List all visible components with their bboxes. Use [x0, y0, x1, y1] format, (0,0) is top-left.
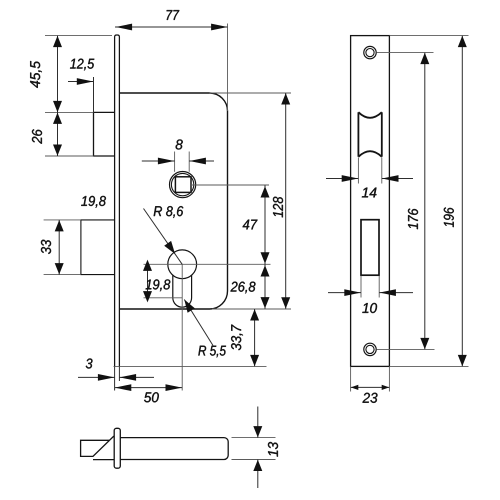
extension line: roller left for 14 — [357, 158, 359, 184]
dimension 47 label — [243, 220, 258, 230]
dimension 19,8 bottom arrow — [143, 291, 152, 302]
extension line: spindle dim 8 right — [188, 152, 190, 172]
dimension 14 left arrow line — [326, 178, 358, 180]
dimension 10 left arrow line — [328, 292, 361, 294]
dimension 196 label — [444, 207, 454, 227]
extension line: plate right below for 23 — [388, 366, 390, 391]
dimension 26,8 line — [264, 264, 266, 309]
extension line: keyway bottom for 19,8 — [144, 297, 183, 299]
extension line: deadbolt bottom left — [44, 274, 81, 276]
dimension 128 label — [273, 197, 283, 218]
spindle hole outer circle — [170, 172, 196, 198]
dimension 10 label — [362, 303, 377, 313]
euro cylinder keyway slot — [173, 275, 192, 307]
dimension 26 label — [32, 129, 42, 144]
extension line: deadbolt top left — [44, 219, 81, 221]
dimension 12,5 arrow line — [68, 81, 94, 83]
extension line: plate left below for 23 — [350, 366, 352, 391]
extension line: deadbolt cutout right for 10 — [378, 276, 380, 298]
dimension 196 top arrow — [458, 36, 467, 47]
dimension 14 right arrow line — [382, 178, 413, 180]
latch bolt (bottom view) with bevel — [81, 436, 115, 459]
extension line: latch bottom (left of latch) — [45, 155, 94, 157]
dimension 23 label — [363, 393, 378, 403]
faceplate end view bar (bottom view) — [114, 428, 120, 468]
dimension 176 bottom arrow — [420, 338, 429, 349]
dimension 3 left arrow — [98, 374, 115, 381]
dimension 45,5 top arrow — [53, 36, 62, 47]
extension line: latch tip vertical for 12,5 — [93, 77, 95, 112]
dimension 33,7 bottom arrow — [250, 355, 259, 366]
dimension 10 right arrow — [379, 289, 396, 296]
dimension 33 line — [58, 220, 60, 275]
dimension 26,8 top arrow — [261, 265, 270, 276]
dimension 23 left arrow — [351, 385, 359, 390]
dimension 13 bottom arrow line — [257, 460, 259, 489]
dimension 10 right arrow line — [379, 292, 413, 294]
extension line: latch top (left of latch) — [45, 111, 94, 113]
dimension 50 label — [144, 392, 159, 402]
dimension 176 top arrow — [420, 53, 429, 64]
dimension 26,8 label — [231, 282, 256, 294]
dimension 19,8 top arrow — [143, 260, 152, 271]
extension line: top screw centre to 176 dim — [376, 52, 433, 54]
dimension 33 bottom arrow — [55, 263, 64, 274]
dimension 128 bottom arrow — [281, 297, 290, 308]
extension line: deadbolt cutout left for 10 — [360, 276, 362, 298]
extension line: cylinder horizontal centre line — [144, 263, 271, 265]
extension line: bottom screw centre to 176 dim — [376, 348, 434, 350]
dimension 8 right arrow line — [189, 160, 214, 162]
dimension 8 label — [176, 139, 183, 149]
dimension 33 top arrow — [55, 220, 64, 231]
extension line: plate bottom to 196 dim — [389, 365, 468, 367]
dimension 26 line — [57, 112, 59, 156]
dimension 176 label — [408, 209, 418, 230]
dimension 8 left arrow line — [142, 160, 175, 162]
dimension 47 line — [264, 185, 266, 264]
radius leader R 5,5 line — [184, 300, 213, 346]
latch bolt block (side view) — [94, 112, 115, 156]
dimension 45,5 bottom arrow — [53, 101, 62, 112]
dimension 12,5 label — [70, 59, 94, 71]
extension line: cylinder vertical centre line to 50 dim — [181, 264, 183, 390]
dimension 8 left arrow — [158, 158, 175, 165]
dimension 50 left arrow — [115, 384, 132, 391]
dimension 50 line — [115, 387, 183, 389]
dimension 47 top arrow — [261, 186, 270, 197]
label R 5,5 — [198, 346, 226, 358]
dimension 23 line — [351, 386, 390, 388]
dimension 13 top arrow line — [257, 407, 259, 438]
extension line: case bottom to 128 dim — [212, 308, 291, 310]
dimension 196 line — [461, 36, 463, 367]
faceplate side view (vertical strip) — [115, 35, 120, 366]
spindle hole inner circle — [171, 173, 193, 195]
dimension 128 line — [285, 93, 287, 309]
dimension 26,8 bottom arrow — [261, 297, 270, 308]
extension line: faceplate right below (for 3) — [118, 366, 120, 381]
dimension 14 right arrow — [382, 175, 399, 182]
dimension 26 bottom arrow — [53, 145, 62, 156]
dimension 8 right arrow — [189, 158, 206, 165]
deadbolt cutout rectangle — [361, 220, 379, 276]
dimension 33,7 line — [254, 309, 256, 366]
dimension 12,5 arrow — [77, 78, 94, 85]
dimension 10 left arrow — [344, 289, 361, 296]
extension line: roller right for 14 — [381, 158, 383, 184]
dimension 23 right arrow — [382, 385, 390, 390]
dimension 33,7 top arrow — [250, 309, 259, 320]
extension line: faceplate left below (for 3 and 50) — [114, 366, 116, 390]
bottom screw hole outer — [364, 343, 376, 355]
dimension 3 right arrow — [120, 374, 137, 381]
extension line: case right edge up to 77 dim — [227, 24, 229, 112]
extension line: faceplate top left — [45, 35, 112, 37]
dimension 3 right arrow line — [119, 376, 154, 378]
dimension 45,5 label — [30, 61, 42, 88]
bottom screw hole inner — [366, 345, 374, 353]
dimension 176 line — [424, 53, 426, 350]
dimension 45,5 line — [57, 36, 59, 113]
spindle square hole — [175, 177, 191, 193]
extension line: plate top to 196 dim — [389, 35, 468, 37]
dimension 33 label — [41, 240, 51, 254]
dimension 33,7 label — [231, 325, 243, 351]
dimension 14 left arrow — [342, 175, 359, 182]
extension line: bottom view top for 13 — [232, 437, 276, 439]
dimension 19,8 cylinder label — [146, 279, 171, 291]
extension line: spindle dim 8 left — [174, 152, 176, 172]
extension line: spindle centre to 47 dim — [190, 184, 269, 186]
dimension 13 bottom arrow — [253, 460, 262, 471]
lock case body outline (side view) — [119, 93, 227, 309]
dimension 26 top arrow — [53, 113, 62, 124]
dimension 13 top arrow — [253, 426, 262, 437]
lock case bar (bottom view) — [120, 438, 228, 460]
dimension 47 bottom arrow — [261, 252, 270, 263]
label 19,8 deadbolt throw — [81, 196, 106, 208]
extension line: faceplate bottom to 33,7 dim — [114, 365, 267, 367]
radius leader R 8,6 line — [144, 209, 183, 265]
roller latch cutout — [358, 112, 381, 157]
radius leader R 5,5 arrow — [184, 300, 195, 313]
dimension 77 right arrow — [211, 24, 228, 31]
top screw hole outer — [364, 46, 376, 58]
dimension 19,8 cylinder line — [147, 264, 149, 298]
dimension 128 top arrow — [281, 93, 290, 104]
dimension 3 left arrow line — [78, 376, 115, 378]
dimension 14 label — [362, 188, 377, 198]
extension line: bottom view bottom for 13 — [232, 459, 276, 461]
dimension 77 left arrow — [116, 24, 133, 31]
dimension 3 label — [86, 358, 93, 368]
dimension 77 label — [167, 10, 180, 20]
dimension 13 label — [268, 442, 278, 457]
top screw hole inner — [366, 49, 374, 57]
extension line: case top edge to 128 dim — [210, 92, 292, 94]
faceplate front view rectangle — [351, 36, 390, 367]
dimension 196 bottom arrow — [458, 355, 467, 366]
label R 8,6 — [154, 206, 184, 218]
dimension 50 right arrow — [166, 384, 183, 391]
dimension 77 line — [115, 26, 228, 28]
euro cylinder hole circle — [168, 250, 197, 279]
radius leader R 8,6 arrow — [164, 241, 175, 254]
deadbolt block (side view) — [81, 220, 115, 275]
